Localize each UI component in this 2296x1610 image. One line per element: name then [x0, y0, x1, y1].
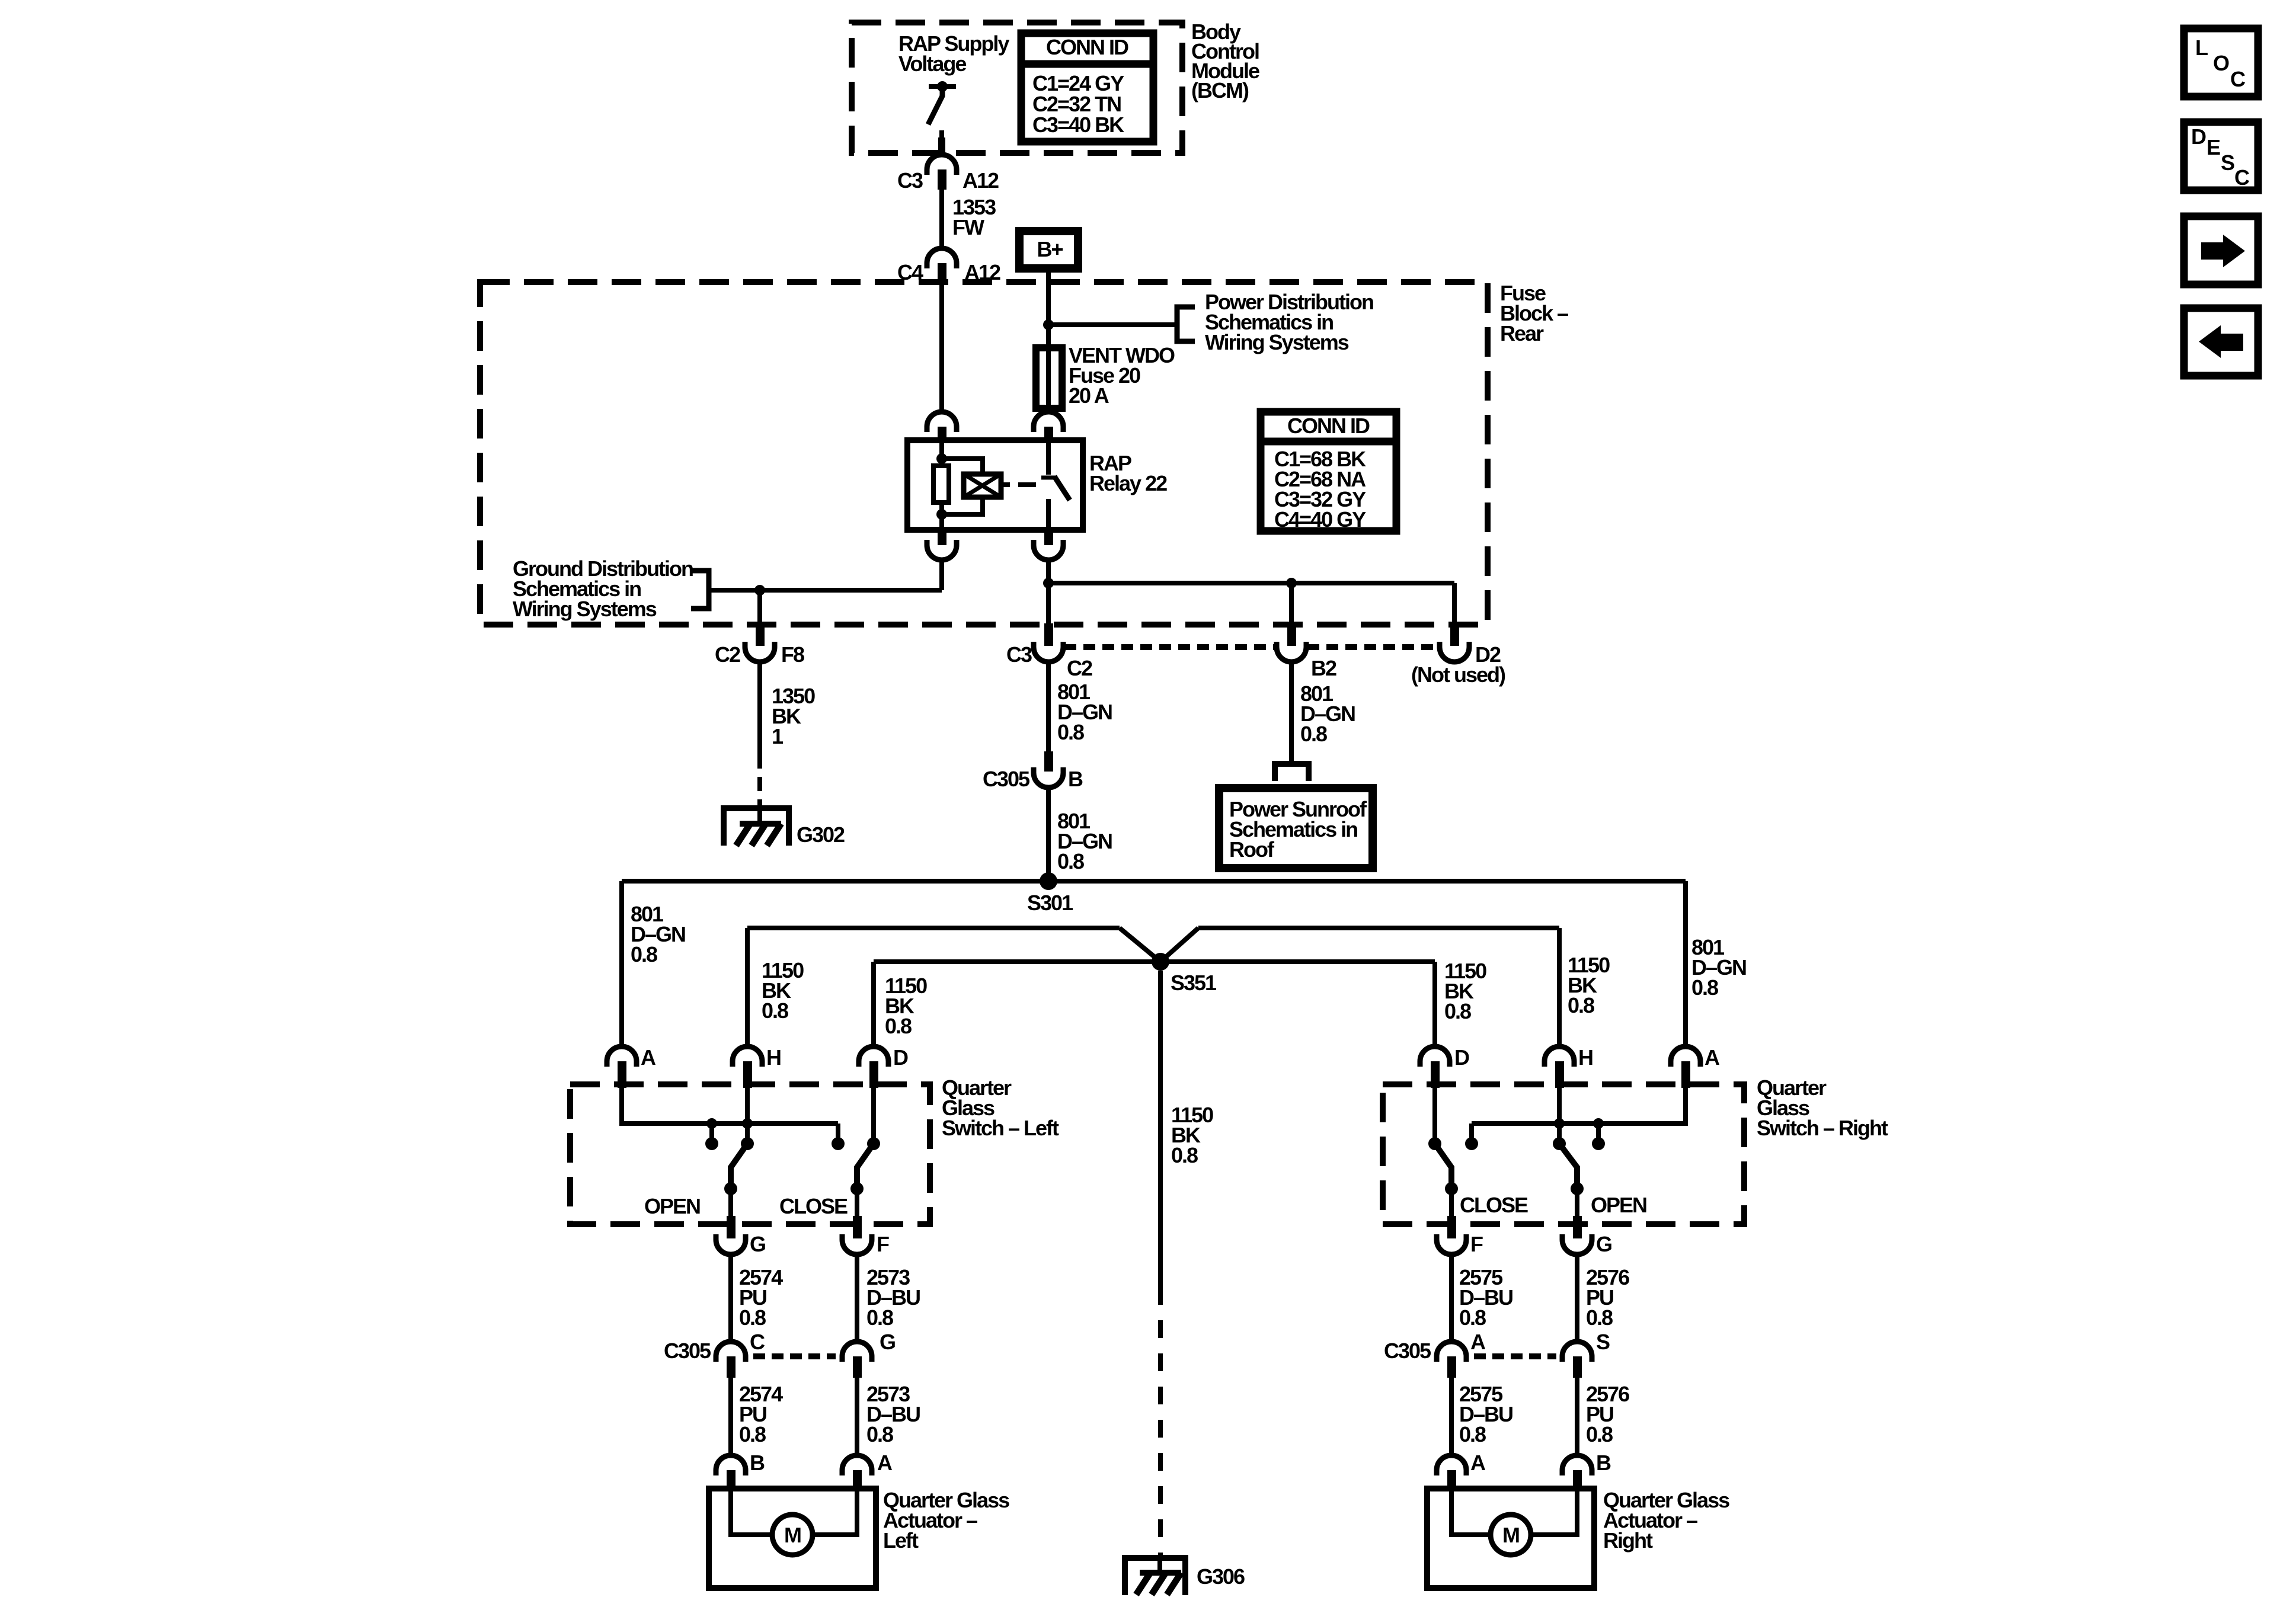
box Body Control Module (BCM) dashed outline [852, 23, 1182, 153]
wire dashed to G302 [757, 754, 762, 811]
connector left actuator pin B [716, 1455, 746, 1475]
wire branch to power distribution [1048, 322, 1177, 327]
svg-text:C3=40 BK: C3=40 BK [1032, 113, 1124, 137]
motor M right quarter glass [1491, 1515, 1531, 1555]
wire dashed to G306 [1158, 1287, 1163, 1558]
switch RAP supply (inside BCM) [929, 84, 956, 89]
svg-text:B2: B2 [1311, 656, 1336, 680]
svg-text:D: D [1454, 1045, 1469, 1070]
connector relay switch output terminal [1044, 530, 1053, 545]
node left CLOSE pivot [867, 1137, 880, 1150]
node junction splice feed [1043, 578, 1054, 588]
svg-text:0.8: 0.8 [885, 1014, 912, 1038]
node left OPEN stub junction [706, 1118, 717, 1129]
svg-text:A: A [877, 1451, 893, 1475]
wire right H to pivot [1557, 1088, 1562, 1144]
connector left switch pin G [727, 1216, 736, 1238]
svg-text:A12: A12 [962, 168, 999, 193]
svg-text:S: S [2221, 151, 2234, 175]
svg-text:(BCM): (BCM) [1191, 78, 1249, 103]
wire right actuator A to motor [1451, 1491, 1491, 1535]
svg-text:1: 1 [772, 724, 784, 748]
svg-text:Wiring Systems: Wiring Systems [513, 597, 657, 621]
wire feed line to D2 [1048, 581, 1454, 585]
node left CLOSE contact [832, 1137, 845, 1150]
switch left OPEN blade [731, 1144, 747, 1189]
node junction ground line to C2 [754, 585, 765, 596]
svg-text:0.8: 0.8 [1459, 1422, 1486, 1446]
svg-text:0.8: 0.8 [1057, 849, 1084, 873]
svg-text:H: H [766, 1045, 781, 1070]
connector relay coil input terminal [927, 412, 957, 432]
svg-text:Left: Left [883, 1528, 919, 1553]
wire C305 right dashed link [1474, 1353, 1556, 1359]
node right OPEN pivot [1553, 1137, 1566, 1150]
wire 2574 PU 0.8 lower [728, 1378, 733, 1455]
connector left switch pin D [859, 1046, 888, 1067]
svg-text:C3: C3 [1006, 642, 1032, 667]
svg-text:B+: B+ [1037, 237, 1063, 261]
connector left switch pin A [607, 1046, 637, 1067]
node right OPEN blade end [1571, 1182, 1584, 1195]
svg-text:G306: G306 [1197, 1564, 1245, 1589]
svg-text:FW: FW [952, 215, 984, 239]
wire right G exit [1575, 1189, 1579, 1217]
svg-text:0.8: 0.8 [1568, 993, 1594, 1017]
connector right switch pin A [1671, 1046, 1700, 1067]
node right CLOSE contact [1465, 1137, 1478, 1150]
wire right actuator B to motor [1531, 1491, 1577, 1535]
wire C305 left dashed link [753, 1353, 836, 1359]
svg-text:C3: C3 [897, 168, 923, 193]
connector right switch pin D [1420, 1046, 1450, 1067]
wire left D drop [871, 962, 876, 1046]
svg-text:L: L [2195, 36, 2208, 60]
node right H crossing [1554, 1118, 1565, 1129]
svg-text:Roof: Roof [1229, 837, 1275, 862]
node right OPEN contact [1592, 1137, 1605, 1150]
svg-text:0.8: 0.8 [631, 942, 657, 966]
connector relay switch input terminal [1034, 412, 1063, 432]
coil relay winding symbol [964, 474, 1001, 497]
wire connector C3 group dashed link [1064, 644, 1275, 650]
wire 801 D-GN 0.8 upper [1046, 661, 1051, 751]
icon LOC box [2184, 28, 2258, 97]
wire left A drop [619, 881, 624, 1046]
svg-text:C4=40 GY: C4=40 GY [1274, 507, 1366, 532]
svg-text:B: B [1068, 767, 1083, 791]
svg-text:CLOSE: CLOSE [779, 1194, 848, 1218]
svg-text:CONN ID: CONN ID [1046, 35, 1128, 59]
svg-text:B: B [750, 1451, 765, 1475]
svg-text:D: D [2191, 124, 2206, 149]
svg-text:Rear: Rear [1500, 321, 1544, 345]
wire relay coil leg upper [939, 440, 944, 466]
node left CLOSE blade end [850, 1182, 864, 1195]
svg-text:B: B [1596, 1451, 1611, 1475]
wire left actuator A to motor [813, 1491, 857, 1535]
connector C3 pin A12 [927, 155, 957, 175]
connector right switch pin G [1573, 1216, 1582, 1238]
svg-text:Relay 22: Relay 22 [1089, 471, 1167, 495]
svg-text:A: A [1705, 1045, 1720, 1070]
wire right CLOSE contact stub [1469, 1124, 1474, 1144]
svg-text:CLOSE: CLOSE [1460, 1193, 1528, 1217]
svg-text:S301: S301 [1027, 891, 1073, 915]
switch relay contact [1046, 440, 1051, 475]
connector right switch pin F [1447, 1216, 1456, 1238]
svg-text:CONN ID: CONN ID [1287, 414, 1370, 438]
node junction B+ branch [1043, 319, 1054, 330]
svg-text:0.8: 0.8 [1586, 1305, 1613, 1330]
wire left F exit [855, 1189, 859, 1217]
connector C305 pin B [1044, 751, 1053, 772]
wire BCM switch to connector C3 [938, 137, 945, 155]
wire left A feed [622, 1088, 838, 1124]
svg-text:H: H [1578, 1045, 1593, 1070]
wire S301 distribution line [622, 879, 1686, 884]
wire ground distribution line [709, 588, 942, 593]
svg-text:O: O [2213, 51, 2229, 75]
svg-text:F: F [877, 1232, 889, 1256]
table CONN ID (fuse block) frame [1261, 412, 1396, 441]
node right CLOSE blade end [1445, 1182, 1458, 1195]
svg-text:0.8: 0.8 [1300, 722, 1327, 746]
svg-text:M: M [1502, 1523, 1519, 1547]
node relay coil junction lower [936, 509, 947, 520]
connector C3 pin D2 [1450, 623, 1459, 646]
relay RAP Relay 22 outline [907, 440, 1083, 530]
connector C3 pin B2 [1287, 623, 1296, 646]
wire 2575 D-BU 0.8 upper [1449, 1254, 1454, 1342]
svg-text:0.8: 0.8 [866, 1305, 893, 1330]
wire right D to pivot [1432, 1088, 1437, 1144]
svg-text:Switch – Left: Switch – Left [942, 1116, 1059, 1140]
wire 2574 PU 0.8 upper [728, 1254, 733, 1342]
svg-text:Right: Right [1603, 1528, 1653, 1553]
svg-text:0.8: 0.8 [1444, 999, 1471, 1023]
wire C2 drop [757, 590, 762, 625]
connector right switch pin H [1544, 1046, 1574, 1067]
wire 801 D-GN 0.8 to sunroof [1289, 661, 1294, 764]
svg-text:C305: C305 [664, 1339, 711, 1363]
wire 1350 BK 1 [757, 661, 762, 754]
bracket power distribution reference [1177, 307, 1195, 341]
svg-text:S351: S351 [1171, 971, 1217, 995]
wire 2576 PU 0.8 lower [1575, 1378, 1579, 1455]
wire left H drop [745, 928, 750, 1046]
box Quarter Glass Actuator - Right outline [1427, 1489, 1594, 1588]
wire right A drop [1683, 881, 1688, 1046]
wire relay switch output drop [1046, 559, 1051, 583]
bracket ground distribution reference [691, 571, 709, 609]
svg-text:S: S [1596, 1330, 1610, 1354]
svg-text:F: F [1470, 1232, 1483, 1256]
ground G302 symbol [724, 808, 789, 846]
connector left actuator pin A [842, 1455, 872, 1475]
svg-text:0.8: 0.8 [739, 1422, 766, 1446]
wire C3 drop [1046, 583, 1051, 625]
svg-text:Switch – Right: Switch – Right [1757, 1116, 1888, 1140]
connector C305 pin G [842, 1342, 872, 1362]
svg-text:F8: F8 [781, 642, 804, 667]
wire right F exit [1449, 1189, 1454, 1217]
svg-text:C: C [2230, 67, 2246, 91]
wire C4 to relay coil input [939, 283, 944, 412]
svg-text:C: C [750, 1330, 765, 1354]
svg-text:C2: C2 [715, 642, 740, 667]
svg-text:0.8: 0.8 [1057, 720, 1084, 744]
wire relay coil output to ground line [939, 559, 944, 590]
svg-text:0.8: 0.8 [1459, 1305, 1486, 1330]
table CONN ID (BCM) frame [1021, 33, 1153, 64]
svg-text:G: G [750, 1232, 765, 1256]
connector right actuator pin B [1562, 1455, 1592, 1475]
svg-text:C2: C2 [1067, 656, 1092, 680]
wire V left leg to S351 [1120, 928, 1160, 962]
svg-text:0.8: 0.8 [1171, 1143, 1198, 1167]
switch right CLOSE blade [1435, 1144, 1451, 1189]
connector C2 pin F8 [756, 623, 765, 646]
node left OPEN pivot [741, 1137, 754, 1150]
node left OPEN contact [705, 1137, 718, 1150]
ground G306 symbol [1125, 1558, 1185, 1595]
node B+ battery feed box [1019, 231, 1078, 268]
wire 2573 D-BU 0.8 upper [855, 1254, 859, 1342]
node left OPEN blade end [724, 1182, 737, 1195]
wire left CLOSE contact stub [836, 1124, 840, 1144]
wire right OPEN contact stub [1596, 1124, 1601, 1144]
box Quarter Glass Actuator - Left outline [709, 1489, 876, 1588]
svg-text:Voltage: Voltage [898, 52, 966, 76]
wire left OPEN contact stub [709, 1124, 714, 1144]
wire relay coil to actuation dash [1001, 482, 1010, 487]
wire left H to pivot [745, 1088, 750, 1144]
svg-text:A: A [641, 1045, 656, 1070]
connector power sunroof fork [1275, 764, 1309, 781]
icon previous-page arrow box [2184, 308, 2258, 376]
connector C305 pin A [1437, 1342, 1466, 1362]
svg-text:Wiring Systems: Wiring Systems [1205, 330, 1349, 354]
connector right actuator pin A [1437, 1455, 1466, 1475]
connector left switch pin H [733, 1046, 762, 1067]
wire D2 drop [1452, 583, 1457, 625]
wire relay coil leg lower [939, 502, 944, 530]
svg-text:20 A: 20 A [1069, 383, 1109, 408]
wire H-level line left [747, 926, 1120, 930]
box Fuse Block - Rear dashed outline [480, 282, 1488, 625]
wire 2575 D-BU 0.8 lower [1449, 1378, 1454, 1455]
svg-text:0.8: 0.8 [762, 998, 788, 1023]
wire 1353 FW [939, 190, 944, 248]
icon next-page arrow box [2184, 216, 2258, 284]
box Quarter Glass Switch - Left dashed outline [570, 1084, 930, 1224]
connector C4 pin A12 [927, 248, 957, 268]
svg-text:C305: C305 [1384, 1339, 1431, 1363]
wire H-level line right [1198, 926, 1559, 930]
wire left G exit [728, 1189, 733, 1217]
wire relay coil loop [942, 459, 983, 474]
wire 2573 D-BU 0.8 lower [855, 1378, 859, 1455]
svg-text:0.8: 0.8 [1691, 975, 1718, 1000]
svg-text:D: D [893, 1045, 908, 1070]
wire V right leg from S351 [1160, 928, 1198, 962]
node junction B2 tap [1286, 578, 1297, 588]
svg-text:0.8: 0.8 [739, 1305, 766, 1330]
connector C305 pin S [1562, 1342, 1592, 1362]
svg-text:A: A [1470, 1330, 1486, 1354]
svg-text:0.8: 0.8 [866, 1422, 893, 1446]
wire right A feed [1472, 1088, 1686, 1124]
node splice S301 [1040, 872, 1057, 890]
wire 2576 PU 0.8 upper [1575, 1254, 1579, 1342]
wire left D to pivot [871, 1088, 876, 1144]
svg-text:C: C [2234, 165, 2250, 190]
node relay coil junction upper [936, 453, 947, 464]
node right CLOSE pivot [1428, 1137, 1441, 1150]
wire right H drop [1557, 928, 1562, 1046]
connector C3 pin C2 [1044, 623, 1053, 646]
svg-text:M: M [784, 1523, 801, 1547]
svg-text:0.8: 0.8 [1586, 1422, 1613, 1446]
wire D-level line [874, 959, 1435, 964]
connector C305 pin C [716, 1342, 746, 1362]
resistor relay coil resistor [933, 466, 949, 502]
box Power Sunroof Schematics in Roof [1219, 788, 1373, 868]
wire 1150 BK 0.8 splice drop [1158, 971, 1163, 1287]
wire left actuator B to motor [731, 1491, 772, 1535]
node right OPEN stub junction [1593, 1118, 1604, 1129]
svg-text:C305: C305 [983, 767, 1030, 791]
svg-text:OPEN: OPEN [644, 1194, 700, 1218]
wire right D drop [1432, 962, 1437, 1046]
svg-text:(Not used): (Not used) [1411, 662, 1505, 687]
wire B2 drop [1289, 583, 1294, 625]
node splice S351 [1152, 953, 1169, 971]
fuse VENT WDO Fuse 20 20 A [1036, 348, 1062, 408]
switch left CLOSE blade [857, 1144, 874, 1189]
wire 801 D-GN 0.8 lower [1046, 787, 1051, 881]
wire B+ to fuse [1046, 268, 1051, 350]
box Quarter Glass Switch - Right dashed outline [1383, 1084, 1744, 1224]
svg-text:OPEN: OPEN [1591, 1193, 1646, 1217]
motor M left quarter glass [772, 1515, 813, 1555]
svg-text:G: G [1596, 1232, 1611, 1256]
svg-text:G: G [880, 1330, 895, 1354]
svg-text:E: E [2207, 135, 2220, 159]
node left H crossing [742, 1118, 753, 1129]
connector left switch pin F [853, 1216, 862, 1238]
svg-text:A: A [1470, 1451, 1486, 1475]
icon DESC box [2184, 122, 2258, 190]
svg-text:G302: G302 [797, 822, 845, 847]
switch right OPEN blade [1559, 1144, 1577, 1189]
connector relay coil output terminal [938, 530, 946, 545]
